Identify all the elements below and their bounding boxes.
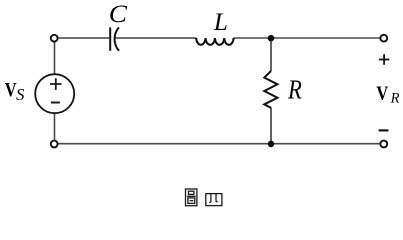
terminal top-left <box>51 35 58 42</box>
terminal bottom-right <box>380 141 387 148</box>
output minus sign <box>379 129 389 131</box>
caption glyph 圖 <box>186 189 197 206</box>
svg-text:C: C <box>109 0 128 28</box>
svg-text:S: S <box>16 85 24 104</box>
wire left branch lower (source to terminal) <box>54 113 56 139</box>
wire resistor bottom stub <box>270 108 272 144</box>
wire resistor top stub <box>270 38 272 71</box>
voltage source VS circle <box>35 74 74 113</box>
junction node bottom <box>268 141 275 148</box>
wire top rail: capacitor to inductor <box>115 37 196 39</box>
resistor R zigzag <box>264 71 277 108</box>
inductor L coil <box>196 38 233 45</box>
wire left branch upper (terminal to source) <box>54 42 56 74</box>
svg-text:V: V <box>376 82 388 104</box>
voltage source minus sign <box>51 102 60 104</box>
capacitor C1 left plate <box>109 27 111 50</box>
wire top rail: inductor to right terminal <box>234 37 380 39</box>
capacitor C1 right curved plate <box>115 27 119 50</box>
terminal top-right <box>380 35 387 42</box>
wire bottom rail <box>58 143 380 145</box>
voltage source plus sign <box>50 78 62 90</box>
wire top rail: left terminal to capacitor <box>58 37 109 39</box>
svg-text:L: L <box>213 9 228 36</box>
terminal bottom-left <box>51 141 58 148</box>
svg-text:R: R <box>287 76 302 105</box>
svg-text:R: R <box>390 90 400 106</box>
svg-text:V: V <box>5 78 17 100</box>
caption glyph 四 <box>206 194 222 206</box>
junction node top <box>268 35 275 42</box>
output plus sign <box>379 54 390 65</box>
